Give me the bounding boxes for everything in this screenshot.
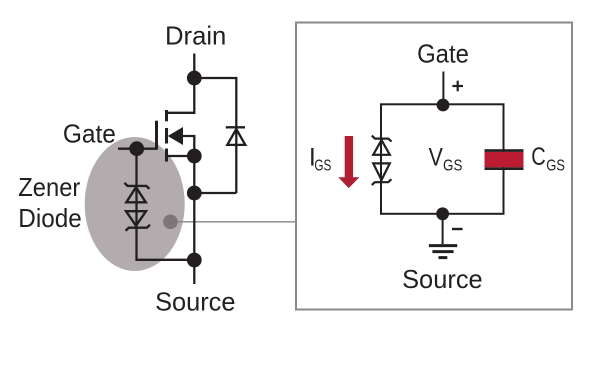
node gate: [129, 141, 144, 156]
node body-diode junction: [187, 186, 202, 201]
svg-text:Source: Source: [155, 287, 235, 317]
wire drain lead into MOSFET: [167, 78, 194, 113]
highlight ellipse around zener diode: [85, 137, 185, 271]
node source of MOSFET: [187, 149, 202, 164]
wire drain node to body-diode branch: [194, 78, 236, 193]
svg-text:C: C: [531, 143, 546, 171]
svg-text:GS: GS: [546, 157, 565, 174]
wire gate stub (panel): [442, 72, 444, 106]
label Zener Diode: [18, 172, 82, 233]
wire source rail: [193, 156, 195, 260]
label plus: [452, 81, 463, 92]
svg-text:Diode: Diode: [18, 203, 82, 233]
node gray zoom point: [163, 215, 178, 230]
svg-text:Zener: Zener: [18, 172, 80, 202]
label VGS: [429, 144, 463, 175]
svg-text:Drain: Drain: [165, 21, 226, 51]
zener diode ZD3 (cathode up, panel): [372, 136, 392, 155]
transistor Q1 body arrow: [168, 127, 183, 145]
label Source (panel): [402, 264, 483, 294]
wire drain stub: [193, 54, 195, 79]
wire body lead to source node: [182, 136, 194, 156]
label Gate (panel): [417, 39, 469, 69]
transistor Q1 MOSFET gate bar: [155, 121, 158, 150]
label Gate (left): [63, 119, 116, 149]
zener diode ZD2 (cathode down): [126, 211, 150, 231]
zener diode ZD1 (cathode up): [124, 183, 149, 203]
wire source stub: [193, 260, 195, 284]
node drain: [187, 71, 202, 86]
svg-text:Source: Source: [402, 264, 483, 294]
label IGS: [309, 144, 332, 175]
node gate (panel): [437, 99, 450, 112]
ground: [429, 214, 457, 258]
label minus: [452, 228, 463, 230]
wire loop rectangle: [381, 104, 504, 214]
node source (panel): [436, 207, 449, 220]
wire source lead: [167, 155, 194, 157]
transistor Q1 MOSFET channel segments: [165, 110, 168, 162]
wire zener branch: [137, 149, 195, 260]
label Source (left): [155, 287, 235, 317]
current arrow IGS: [338, 136, 359, 188]
wire gray zoom-link from node to panel: [170, 221, 296, 223]
svg-text:GS: GS: [314, 157, 331, 174]
svg-text:Gate: Gate: [63, 119, 116, 149]
label Drain: [165, 21, 226, 51]
svg-text:Gate: Gate: [417, 39, 469, 69]
svg-text:GS: GS: [443, 157, 462, 174]
node bottom source: [187, 253, 202, 268]
capacitor CGS: [485, 149, 524, 170]
label CGS: [531, 143, 565, 174]
wire body-diode to lower node: [194, 192, 236, 194]
svg-text:V: V: [429, 144, 443, 172]
panel box: [296, 23, 572, 310]
zener diode ZD4 (cathode down, panel): [372, 163, 392, 185]
wire gate lead: [118, 148, 157, 150]
body diode D1: [226, 127, 246, 145]
